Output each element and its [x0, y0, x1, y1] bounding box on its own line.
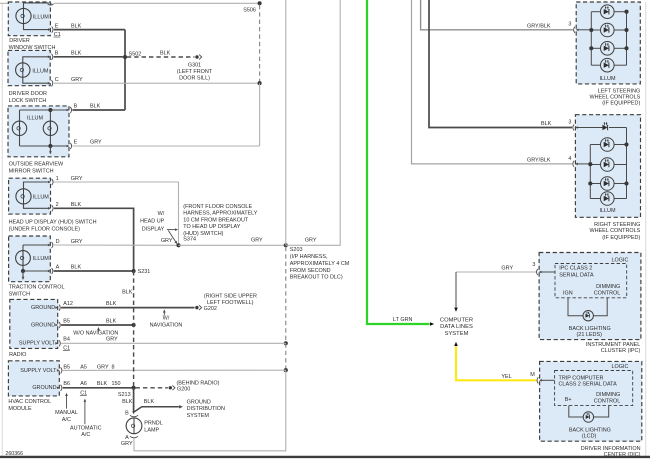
svg-text:APPROXIMATELY 4 CM: APPROXIMATELY 4 CM [290, 261, 350, 267]
pin D connector traction [48, 244, 51, 247]
junction HVAC-GRY [284, 368, 288, 372]
svg-text:SERIAL DATA: SERIAL DATA [559, 272, 594, 278]
svg-text:B4: B4 [63, 337, 70, 343]
wire GRY to IPC [456, 271, 536, 273]
svg-text:BLK: BLK [106, 301, 117, 307]
wire GRY S203 to top [286, 0, 340, 245]
arrow option HUD diagonal [168, 231, 175, 242]
svg-text:(IF EQUIPPED): (IF EQUIPPED) [602, 101, 640, 107]
driver information center box [540, 361, 642, 441]
svg-text:GRY: GRY [121, 441, 133, 447]
pin B5 connector hvac [57, 369, 60, 372]
svg-text:CONTROL: CONTROL [594, 398, 621, 404]
svg-text:BACK LIGHTING: BACK LIGHTING [569, 326, 611, 332]
wire backlight circuit DIC [569, 406, 584, 417]
pin E connector mirror [67, 145, 70, 148]
svg-text:GRY: GRY [71, 239, 83, 245]
svg-text:MIRROR SWITCH: MIRROR SWITCH [9, 169, 54, 175]
svg-text:HEAD UP: HEAD UP [140, 219, 165, 225]
wire BLK to right steering [429, 0, 572, 128]
wire traction pin D GRY [54, 244, 179, 246]
wire left bus left steering [590, 12, 592, 65]
illumination lamp traction [16, 251, 31, 266]
junction mirror bottom [48, 144, 52, 148]
wire hvac B6 BLK [63, 387, 134, 389]
svg-text:BLK: BLK [122, 399, 133, 405]
svg-text:ILLUM: ILLUM [599, 76, 615, 82]
svg-text:GRY: GRY [106, 337, 118, 343]
svg-text:(I/P HARNESS,: (I/P HARNESS, [290, 254, 328, 260]
svg-text:2: 2 [56, 202, 59, 208]
wire right bus left steering [626, 12, 628, 65]
svg-text:BLK: BLK [71, 51, 82, 57]
outside rearview mirror switch box [8, 106, 69, 157]
wire S506 run GRY [54, 2, 260, 4]
wire branch BLK to ground distribution [134, 407, 179, 412]
svg-text:DISTRIBUTION: DISTRIBUTION [187, 406, 225, 412]
svg-text:PRNDL: PRNDL [144, 421, 162, 427]
svg-text:B: B [55, 51, 59, 57]
svg-text:E: E [55, 23, 59, 29]
svg-text:LOGIC: LOGIC [611, 257, 628, 263]
wire internal DIC pinM [541, 379, 555, 381]
arrow W/O NAVIGATION [98, 329, 100, 331]
wire internal window switch [24, 3, 49, 9]
connector top of window switch [49, 2, 51, 5]
svg-text:A/C: A/C [81, 432, 90, 438]
svg-text:E: E [74, 140, 78, 146]
wire left bus right steering [589, 145, 591, 199]
arrow traction internal down [22, 271, 24, 277]
svg-text:GRY: GRY [71, 77, 83, 83]
svg-text:(LCD): (LCD) [582, 433, 597, 439]
pin A12 connector radio [55, 306, 58, 309]
left steering wheel controls box [576, 2, 640, 84]
junction dots left steering [589, 28, 593, 32]
pin B4 connector radio [55, 342, 58, 345]
svg-text:GROUND: GROUND [187, 399, 211, 405]
svg-text:ILLUM: ILLUM [33, 256, 49, 262]
illumination lamp mirror left [12, 121, 26, 135]
svg-text:HEAD UP DISPLAY (HUD) SWITCH: HEAD UP DISPLAY (HUD) SWITCH [9, 220, 97, 226]
svg-text:A/C: A/C [62, 417, 71, 423]
svg-text:B5: B5 [63, 318, 70, 324]
svg-text:CLASS 2 SERIAL DATA: CLASS 2 SERIAL DATA [559, 382, 618, 388]
splice S213 [132, 386, 136, 390]
radio box [10, 299, 58, 348]
svg-text:GROUND: GROUND [31, 322, 55, 328]
wire GRY S374 to S203 [179, 244, 286, 246]
svg-text:IGN: IGN [563, 291, 573, 297]
wire backlight circuit IPC [568, 298, 583, 316]
junction radio B5 / S231 run [132, 323, 136, 327]
svg-text:GRY: GRY [97, 365, 109, 371]
wire S506 dashed down [259, 5, 261, 83]
svg-text:GRY: GRY [71, 176, 83, 182]
svg-text:BLK: BLK [122, 290, 133, 296]
arrow option HUD horizontal [167, 229, 175, 231]
svg-text:HARNESS, APPROXIMATELY: HARNESS, APPROXIMATELY [183, 211, 258, 217]
svg-text:CLUSTER (IPC): CLUSTER (IPC) [601, 348, 641, 354]
LED row 4 left steering [591, 64, 600, 66]
svg-text:B: B [125, 411, 129, 417]
svg-text:(21 LEDS): (21 LEDS) [577, 332, 603, 338]
arrow AUTOMATIC A/C [84, 401, 86, 424]
svg-text:B6: B6 [63, 381, 70, 387]
wire internal traction [23, 244, 49, 246]
wire hvac B5 GRY [63, 369, 286, 371]
illumination lamp window switch [16, 8, 31, 23]
svg-text:BLK: BLK [541, 121, 552, 127]
LED back lighting DIC [583, 412, 593, 422]
svg-text:SYSTEM: SYSTEM [445, 331, 469, 337]
svg-text:BLK: BLK [90, 104, 101, 110]
svg-text:B+: B+ [565, 397, 572, 403]
page left border [1, 3, 3, 456]
pin 3 connector IPC [539, 271, 542, 274]
svg-text:(UNDER FLOOR CONSOLE): (UNDER FLOOR CONSOLE) [9, 227, 80, 233]
svg-text:TRACTION CONTROL: TRACTION CONTROL [9, 285, 65, 291]
svg-text:BLK: BLK [71, 265, 82, 271]
junction traction internal [21, 269, 25, 273]
svg-text:DISPLAY: DISPLAY [142, 227, 165, 233]
wire GRY down arrow to computer data lines [455, 272, 457, 308]
svg-text:SUPPLY VOLT: SUPPLY VOLT [19, 341, 56, 347]
svg-text:3: 3 [568, 119, 571, 125]
svg-text:10 CM FROM BREAKOUT: 10 CM FROM BREAKOUT [183, 217, 249, 223]
svg-text:ILLUM: ILLUM [32, 68, 48, 74]
svg-text:W/O NAVIGATION: W/O NAVIGATION [73, 330, 118, 336]
svg-text:(FRONT FLOOR CONSOLE: (FRONT FLOOR CONSOLE [183, 204, 252, 210]
arrow MANUAL A/C [66, 395, 68, 408]
svg-text:(IF EQUIPPED): (IF EQUIPPED) [602, 235, 640, 241]
svg-text:3: 3 [568, 22, 571, 28]
wire GRY stub to page edge top-left [0, 2, 8, 4]
svg-text:OUTSIDE REARVIEW: OUTSIDE REARVIEW [9, 162, 64, 168]
svg-text:A12: A12 [63, 301, 73, 307]
wire dashed BLK to G301 [127, 56, 195, 58]
LED row 1 left steering [591, 11, 600, 13]
pin 3 connector right steering [575, 126, 578, 129]
svg-text:M: M [530, 372, 535, 378]
wire HUD pin2 BLK [54, 208, 134, 271]
svg-text:DIMMING: DIMMING [596, 392, 620, 398]
LED row 4 right steering [590, 198, 600, 200]
svg-text:GRY: GRY [90, 140, 102, 146]
wire internal left steering entry [578, 29, 592, 31]
svg-text:LAMP: LAMP [144, 428, 159, 434]
splice S506 [258, 1, 262, 5]
svg-text:MODULE: MODULE [8, 406, 32, 412]
svg-text:LEFT FOOTWELL): LEFT FOOTWELL) [207, 300, 254, 306]
pin 4 connector right steering [575, 163, 578, 166]
svg-text:DRIVER: DRIVER [9, 38, 30, 44]
wire GRY S203 dashed down [285, 247, 287, 343]
pin B5 connector radio [55, 324, 58, 327]
svg-text:S203: S203 [290, 247, 303, 253]
pin 3 connector left steering [576, 29, 579, 32]
pin 2 connector HUD [48, 207, 51, 210]
svg-text:TRIP COMPUTER: TRIP COMPUTER [559, 375, 604, 381]
svg-text:MANUAL: MANUAL [55, 410, 78, 416]
driver window switch box [8, 2, 50, 36]
wire LT GRN data line [367, 0, 430, 324]
svg-text:A: A [56, 265, 60, 271]
svg-text:SYSTEM: SYSTEM [187, 413, 210, 419]
pin B connector mirror [67, 109, 70, 112]
pin A connector traction [48, 270, 51, 273]
arrow mirror internal down [49, 146, 51, 152]
wire radio B4 GRY [61, 342, 286, 344]
splice S374 [176, 243, 180, 247]
wire radio A12 BLK to G202 [61, 307, 194, 309]
svg-text:COMPUTER: COMPUTER [440, 317, 473, 323]
svg-text:GRY: GRY [305, 238, 317, 244]
svg-text:B5: B5 [63, 365, 70, 371]
logic inner box DIC [555, 371, 633, 406]
wire internal IPC pin3 [540, 271, 555, 273]
wire internal door lock [23, 57, 49, 63]
pin 1 connector HUD [48, 181, 51, 184]
svg-text:LT GRN: LT GRN [393, 317, 413, 323]
page right border [645, 2, 647, 456]
svg-text:W/: W/ [158, 211, 165, 217]
svg-text:HVAC CONTROL: HVAC CONTROL [8, 399, 51, 405]
svg-text:LOGIC: LOGIC [611, 364, 628, 370]
arrow W/ NAVIGATION [163, 312, 165, 316]
LED row 2 right steering [590, 164, 600, 166]
pin B6 connector hvac [57, 387, 60, 390]
wire right bus right steering [626, 128, 628, 199]
wire internal mirror switch bottom [20, 145, 68, 147]
svg-text:ILLUM: ILLUM [33, 195, 49, 201]
wire dashed BLK to G200 [136, 387, 168, 389]
wire S502 bus [124, 30, 126, 110]
svg-text:BLK: BLK [160, 50, 171, 56]
svg-text:NAVIGATION: NAVIGATION [150, 323, 183, 329]
svg-text:S231: S231 [138, 269, 151, 275]
svg-text:ILLUM: ILLUM [599, 208, 615, 214]
svg-text:DIMMING: DIMMING [596, 284, 620, 290]
svg-text:AUTOMATIC: AUTOMATIC [70, 425, 102, 431]
wire GRY/BLK to left steering [421, 0, 573, 30]
diode right steering [602, 125, 607, 130]
svg-text:GRY: GRY [501, 266, 513, 272]
svg-text:RADIO: RADIO [9, 352, 26, 358]
wire pin B BLK [54, 56, 124, 58]
svg-text:S374: S374 [183, 237, 196, 243]
right steering wheel controls box [575, 115, 640, 218]
svg-text:BLK: BLK [71, 202, 82, 208]
svg-text:W/: W/ [163, 316, 170, 322]
bottom frame border [0, 456, 650, 458]
logic inner box IPC [555, 264, 627, 298]
wire internal mirror left lamp column [19, 110, 21, 146]
junction mirror top [48, 108, 52, 112]
svg-text:G301: G301 [188, 62, 201, 68]
PRNDL lamp connector A [130, 436, 138, 438]
wire mirror pin B BLK [72, 109, 125, 111]
svg-text:SUPPLY VOLT: SUPPLY VOLT [20, 368, 57, 374]
svg-text:G200: G200 [177, 386, 190, 392]
svg-text:DATA LINES: DATA LINES [440, 324, 473, 330]
svg-text:LOCK SWITCH: LOCK SWITCH [9, 98, 47, 104]
wire internal HUD [24, 182, 49, 189]
driver door lock switch box [8, 50, 50, 85]
PRNDL lamp [126, 418, 142, 434]
pin E connector [48, 28, 51, 31]
LED row 3 left steering [591, 47, 600, 49]
svg-text:3: 3 [532, 262, 535, 268]
splice S231 [132, 269, 136, 273]
svg-text:8: 8 [112, 365, 115, 371]
wire mirror pin E GRY [72, 145, 259, 147]
svg-text:1: 1 [56, 176, 59, 182]
svg-text:CONTROL: CONTROL [594, 291, 621, 297]
wire GRY vertical from top to S203 [285, 0, 287, 245]
traction control switch box [9, 236, 51, 282]
svg-text:ILLUM: ILLUM [33, 14, 49, 20]
splice S502 [123, 55, 127, 59]
wire traction pin A BLK [54, 270, 134, 272]
svg-text:S213: S213 [118, 392, 131, 398]
svg-text:WHEEL CONTROLS: WHEEL CONTROLS [589, 228, 640, 234]
svg-text:G202: G202 [204, 306, 217, 312]
svg-text:GRY: GRY [251, 238, 263, 244]
svg-text:B: B [74, 104, 78, 110]
wire YEL data line [456, 346, 536, 380]
LED row 1 right steering [590, 144, 600, 146]
svg-text:GRY/BLK: GRY/BLK [527, 23, 551, 29]
ground G301 [195, 55, 198, 58]
svg-text:(BEHIND RADIO): (BEHIND RADIO) [177, 381, 220, 387]
svg-text:BLK: BLK [144, 399, 155, 405]
pin M connector DIC [539, 379, 542, 382]
svg-text:DOOR SILL): DOOR SILL) [179, 75, 210, 81]
wire GRY loop to PRNDL lamp [134, 370, 286, 451]
wire BLK S213 down to PRNDL lamp [133, 388, 135, 412]
svg-text:GRY/BLK: GRY/BLK [527, 157, 551, 163]
svg-text:(RIGHT SIDE UPPER: (RIGHT SIDE UPPER [204, 294, 257, 300]
svg-text:TO HEAD UP DISPLAY: TO HEAD UP DISPLAY [183, 224, 240, 230]
svg-text:A6: A6 [80, 381, 87, 387]
junction dots right steering [588, 162, 592, 166]
svg-text:ILLUM: ILLUM [27, 116, 43, 122]
svg-text:150: 150 [112, 381, 121, 387]
wire pin C GRY [54, 82, 260, 84]
splice S203 [284, 243, 288, 247]
wire dashed BLK S231 to S213 [133, 271, 135, 388]
illumination lamp mirror right [43, 121, 57, 135]
svg-text:BREAKOUT TO DLC): BREAKOUT TO DLC) [290, 274, 343, 280]
head up display switch box [9, 178, 51, 214]
wire internal mirror switch top [20, 109, 68, 111]
svg-text:BLK: BLK [106, 318, 117, 324]
wire radio B5 BLK [61, 324, 134, 326]
svg-text:DRIVER DOOR: DRIVER DOOR [9, 91, 47, 97]
pin B connector [48, 56, 51, 59]
svg-text:BLK: BLK [97, 381, 108, 387]
svg-text:YEL: YEL [501, 374, 511, 380]
svg-text:GROUND: GROUND [31, 305, 55, 311]
wire internal mirror right lamp column [49, 110, 51, 146]
illumination lamp HUD [16, 189, 31, 204]
svg-text:SWITCH: SWITCH [9, 292, 31, 298]
svg-text:IPC CLASS 2: IPC CLASS 2 [559, 266, 592, 272]
svg-text:FROM SECOND: FROM SECOND [290, 268, 331, 274]
hvac control module box [8, 361, 59, 396]
wire GRY down to mirror switch level [259, 83, 261, 146]
junction C-GRY / S506 [258, 81, 262, 85]
LED row 2 left steering [591, 29, 600, 31]
PRNDL lamp connector B [130, 415, 138, 417]
pin C connector [48, 82, 51, 85]
svg-text:D: D [56, 239, 60, 245]
svg-text:(LEFT FRONT: (LEFT FRONT [177, 69, 213, 75]
ground G200 [169, 386, 172, 389]
svg-text:C: C [55, 77, 59, 83]
LED back lighting IPC [583, 311, 593, 321]
wire GRY dashed segment [285, 343, 287, 370]
instrument panel cluster box [539, 253, 641, 340]
svg-text:BLK: BLK [71, 23, 82, 29]
wire internal pin4 entry [577, 163, 591, 165]
svg-text:4: 4 [568, 156, 571, 162]
svg-text:WHEEL CONTROLS: WHEEL CONTROLS [589, 95, 640, 101]
svg-text:(HUD) SWITCH): (HUD) SWITCH) [183, 231, 223, 237]
svg-text:A5: A5 [80, 365, 87, 371]
wire GRY/BLK to right steering pin4 [412, 0, 573, 164]
svg-text:GRY: GRY [161, 238, 173, 244]
wire internal right steering top [577, 127, 604, 129]
svg-text:GROUND: GROUND [32, 385, 56, 391]
LED row 3 right steering [590, 183, 600, 185]
ground G202 [195, 306, 198, 309]
svg-text:S506: S506 [243, 8, 256, 14]
illumination lamp door lock [16, 63, 30, 77]
junction B4/GRY [284, 341, 288, 345]
wire pin E BLK [54, 29, 125, 31]
wire HUD pin1 GRY [54, 182, 179, 245]
